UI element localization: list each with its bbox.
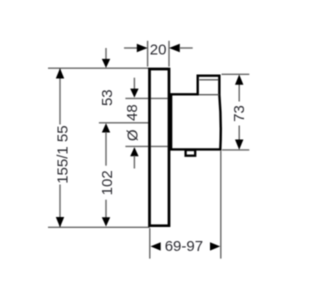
body top edge under knob (199, 94, 219, 96)
dim 102: bottom arrow (points down to plate bottom) (102, 217, 110, 226)
wire 20-dim left extension line (147, 41, 149, 67)
wire 20-dim right extension line (168, 41, 170, 67)
dim 155/155: bottom arrow (56, 217, 64, 227)
wire 73-dim bottom extension line (222, 149, 249, 151)
dim 53: bottom arrow / dim 102 top arrow (points up to center line) (102, 123, 110, 132)
dim diameter 48: bottom arrow (130, 147, 138, 156)
dim 69-97: left arrow (151, 242, 161, 250)
dim 155/155: line upper segment (59, 68, 61, 124)
wire 69-97 right extension line (220, 151, 222, 259)
dim 20: left tail (124, 47, 138, 49)
dim 102: line upper segment (105, 132, 107, 166)
valve body (171, 76, 221, 150)
wire plate-bottom extension line (48, 226, 150, 228)
svg-text:102: 102 (99, 170, 116, 195)
plate (wall flange) (150, 69, 170, 226)
dim 53: top arrow (points down to plate top) (102, 59, 110, 68)
dim 155/155: line lower segment (59, 185, 61, 228)
svg-text:73: 73 (231, 105, 248, 122)
dim 73: line lower segment (238, 126, 240, 141)
dim 20: right arrow (169, 44, 180, 52)
wire center line (99, 122, 148, 124)
dim 53: top tail (105, 48, 107, 60)
dim 20: right tail (179, 47, 193, 49)
wire 69-97 left extension line (149, 228, 151, 258)
dim diameter 48: top tail (133, 78, 135, 89)
wire 73-dim top extension line (222, 73, 250, 75)
svg-text:69-97: 69-97 (165, 238, 203, 255)
bottom tab (186, 150, 196, 156)
wire circle-bottom extension line (125, 145, 170, 147)
svg-text:48: 48 (124, 104, 141, 121)
dim 73: top arrow (235, 75, 243, 85)
svg-text:20: 20 (150, 42, 167, 59)
plate outline repaint (150, 69, 170, 226)
knob inner line (199, 79, 218, 81)
dim diameter 48: bottom tail (133, 156, 135, 169)
wire plate-top extension line (48, 67, 149, 69)
dim diameter 48: top arrow (130, 89, 138, 98)
svg-text:155/1 55: 155/1 55 (54, 125, 71, 183)
svg-text:Ø: Ø (124, 129, 141, 141)
dim 69-97: right arrow (210, 242, 220, 250)
dim 20: left arrow (137, 44, 148, 52)
dim 73: line upper segment (238, 84, 240, 102)
dim 102: line lower segment (105, 200, 107, 218)
svg-text:53: 53 (99, 89, 116, 106)
wire circle-top extension line (125, 97, 170, 99)
dim 73: bottom arrow (235, 140, 243, 150)
dim 155/155: top arrow (56, 68, 64, 78)
